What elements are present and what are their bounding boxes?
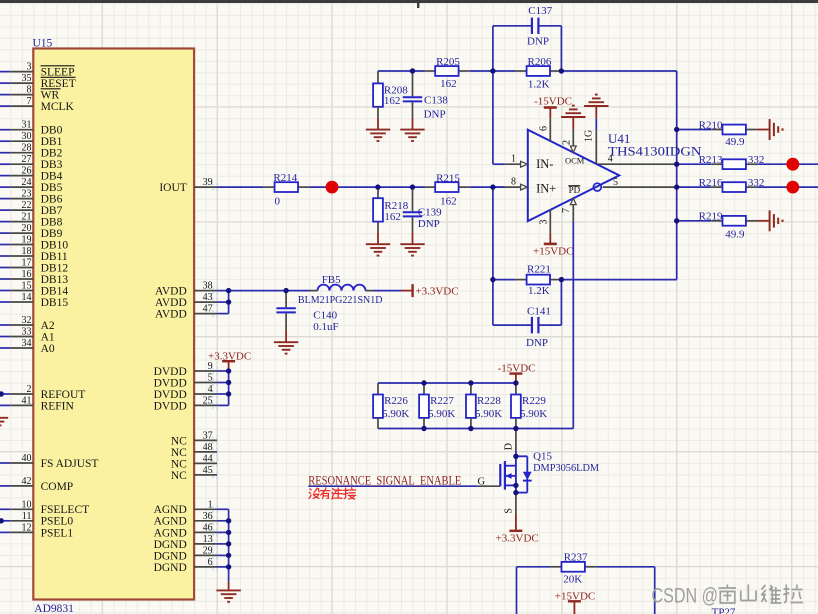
svg-text:42: 42 [22,476,32,487]
svg-text:DVDD: DVDD [154,377,187,389]
svg-text:25: 25 [203,395,213,406]
svg-text:+3.3VDC: +3.3VDC [415,285,458,297]
svg-text:OCM: OCM [565,155,585,165]
svg-text:162: 162 [440,196,457,208]
svg-text:41: 41 [22,395,32,406]
svg-text:S: S [504,508,515,514]
svg-text:14: 14 [22,292,32,303]
svg-text:10: 10 [22,499,32,510]
svg-text:DB2: DB2 [41,148,63,160]
svg-text:20: 20 [22,223,32,234]
svg-text:45: 45 [203,465,213,476]
svg-text:22: 22 [22,200,32,211]
svg-text:C139: C139 [418,207,442,219]
svg-text:13: 13 [203,534,213,545]
svg-text:NC: NC [171,435,187,447]
svg-text:23: 23 [22,189,32,200]
svg-text:DB10: DB10 [41,239,69,251]
svg-text:Q15: Q15 [533,450,552,462]
svg-text:1G: 1G [583,130,594,142]
svg-text:R213: R213 [699,154,723,166]
svg-text:D: D [504,443,515,450]
svg-text:DB9: DB9 [41,228,63,240]
svg-text:DB14: DB14 [41,285,69,297]
svg-text:AGND: AGND [154,504,187,516]
svg-text:PSEL1: PSEL1 [41,527,74,539]
svg-text:RESET: RESET [41,78,76,90]
svg-text:C138: C138 [424,95,448,107]
svg-text:DNP: DNP [424,109,446,121]
svg-text:NC: NC [171,470,187,482]
svg-text:49.9: 49.9 [725,136,745,148]
svg-text:R221: R221 [527,264,551,276]
svg-text:IN+: IN+ [536,181,556,195]
svg-text:7: 7 [27,96,32,107]
svg-text:19: 19 [22,235,32,246]
svg-text:DB5: DB5 [41,182,63,194]
svg-text:29: 29 [203,545,213,556]
svg-text:R216: R216 [699,177,723,189]
svg-text:DB12: DB12 [41,262,69,274]
svg-text:IOUT: IOUT [159,182,186,194]
svg-text:6: 6 [208,557,213,568]
svg-text:2: 2 [562,140,573,145]
svg-text:DGND: DGND [154,562,187,574]
svg-text:24: 24 [22,177,32,188]
svg-text:162: 162 [440,78,457,90]
svg-text:R214: R214 [273,172,297,184]
svg-text:AVDD: AVDD [155,286,187,298]
svg-text:REFIN: REFIN [41,400,75,412]
svg-text:AVDD: AVDD [155,309,187,321]
svg-text:DB0: DB0 [41,125,63,137]
svg-text:4: 4 [208,384,213,395]
svg-text:R215: R215 [436,173,460,185]
svg-text:40: 40 [22,453,32,464]
svg-text:RESONANCE_SIGNAL_ENABLE: RESONANCE_SIGNAL_ENABLE [308,473,461,487]
svg-text:31: 31 [22,120,32,131]
svg-text:DNP: DNP [527,36,549,48]
svg-text:46: 46 [203,522,213,533]
svg-text:1: 1 [208,499,213,510]
svg-text:3: 3 [539,220,550,225]
svg-text:5.90K: 5.90K [428,408,455,420]
svg-text:1.2K: 1.2K [528,285,550,297]
svg-text:R237: R237 [564,552,588,564]
svg-text:17: 17 [22,258,32,269]
svg-text:R228: R228 [477,395,501,407]
svg-text:BLM21PG221SN1D: BLM21PG221SN1D [298,294,383,306]
svg-text:34: 34 [22,338,32,349]
svg-text:1: 1 [511,153,516,164]
svg-text:12: 12 [22,522,32,533]
svg-text:FB5: FB5 [322,274,341,286]
svg-text:AD9831: AD9831 [34,603,74,614]
svg-text:DB15: DB15 [41,297,69,309]
svg-text:30: 30 [22,131,32,142]
svg-text:3: 3 [27,62,32,73]
svg-text:SLEEP: SLEEP [41,67,75,79]
svg-text:4: 4 [608,153,613,164]
svg-text:R206: R206 [528,56,552,68]
svg-text:5.90K: 5.90K [520,408,547,420]
svg-text:DMP3056LDM: DMP3056LDM [533,462,599,474]
svg-text:11: 11 [22,511,32,522]
svg-text:DB13: DB13 [41,274,69,286]
svg-text:AGND: AGND [154,527,187,539]
svg-text:NC: NC [171,447,187,459]
svg-text:COMP: COMP [41,481,74,493]
svg-text:U15: U15 [33,38,53,50]
svg-text:C137: C137 [528,5,552,17]
svg-text:REFOUT: REFOUT [41,389,86,401]
svg-text:32: 32 [22,315,32,326]
svg-text:43: 43 [203,292,213,303]
svg-text:DB4: DB4 [41,171,63,183]
svg-text:44: 44 [203,453,213,464]
svg-text:DB6: DB6 [41,194,63,206]
svg-text:47: 47 [203,304,213,315]
svg-text:R205: R205 [436,56,460,68]
svg-text:+3.3VDC: +3.3VDC [496,533,539,545]
svg-text:5: 5 [613,177,618,188]
svg-text:5.90K: 5.90K [382,408,409,420]
svg-text:9: 9 [208,361,213,372]
svg-text:-15VDC: -15VDC [534,95,572,107]
svg-text:DVDD: DVDD [154,389,187,401]
svg-text:1.2K: 1.2K [528,78,550,90]
svg-text:WR: WR [41,90,60,102]
svg-text:R219: R219 [699,211,723,223]
svg-text:38: 38 [203,281,213,292]
svg-text:DB3: DB3 [41,159,63,171]
svg-text:DB1: DB1 [41,136,63,148]
svg-text:21: 21 [22,212,32,223]
svg-text:162: 162 [384,95,401,107]
svg-text:MCLK: MCLK [41,101,75,113]
svg-text:A0: A0 [41,343,55,355]
svg-text:AGND: AGND [154,516,187,528]
svg-text:FS ADJUST: FS ADJUST [41,458,99,470]
svg-text:R210: R210 [699,119,723,131]
svg-text:R226: R226 [384,395,408,407]
svg-text:PSEL0: PSEL0 [41,516,74,528]
svg-text:TP27: TP27 [712,607,736,614]
svg-text:DNP: DNP [526,337,548,349]
svg-text:DGND: DGND [154,539,187,551]
svg-text:NC: NC [171,458,187,470]
svg-text:DVDD: DVDD [154,366,187,378]
svg-text:8: 8 [511,176,516,187]
svg-text:28: 28 [22,143,32,154]
svg-text:DB8: DB8 [41,217,63,229]
svg-text:18: 18 [22,246,32,257]
svg-text:A2: A2 [41,320,55,332]
svg-text:DNP: DNP [418,218,440,230]
svg-text:THS4130IDGN: THS4130IDGN [608,143,702,158]
svg-text:G: G [478,476,486,487]
svg-text:6: 6 [539,126,550,131]
svg-text:39: 39 [203,177,213,188]
svg-text:DB11: DB11 [41,251,68,263]
svg-text:8: 8 [27,85,32,96]
svg-text:33: 33 [22,327,32,338]
svg-text:R229: R229 [522,395,546,407]
svg-text:15: 15 [22,281,32,292]
svg-text:DGND: DGND [154,550,187,562]
svg-text:C140: C140 [313,309,337,321]
svg-text:49.9: 49.9 [725,228,745,240]
svg-text:CSDN @: CSDN @ [652,585,719,608]
svg-text:DVDD: DVDD [154,400,187,412]
svg-text:7: 7 [561,208,572,213]
svg-text:R227: R227 [430,395,454,407]
svg-text:35: 35 [22,73,32,84]
svg-text:27: 27 [22,154,32,165]
svg-text:C141: C141 [527,305,551,317]
svg-text:0: 0 [275,196,281,208]
svg-text:AVDD: AVDD [155,297,187,309]
svg-text:5: 5 [208,373,213,384]
svg-text:36: 36 [203,511,213,522]
svg-text:0.1uF: 0.1uF [313,321,338,333]
svg-text:DB7: DB7 [41,205,63,217]
svg-text:FSELECT: FSELECT [41,504,90,516]
svg-text:20K: 20K [563,573,582,585]
svg-text:37: 37 [203,430,213,441]
svg-text:A1: A1 [41,331,55,343]
svg-text:162: 162 [384,211,401,223]
svg-text:+15VDC: +15VDC [533,246,573,258]
svg-text:26: 26 [22,166,32,177]
svg-text:5.90K: 5.90K [475,408,502,420]
svg-text:IN-: IN- [536,157,553,171]
svg-text:2: 2 [27,384,32,395]
svg-text:48: 48 [203,442,213,453]
svg-text:16: 16 [22,269,32,280]
